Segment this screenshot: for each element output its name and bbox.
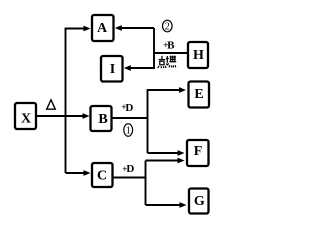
box X (15, 103, 36, 129)
arrowhead into C (84, 170, 91, 176)
label circle of circled 2 (163, 20, 173, 32)
wire into A right (119, 27, 154, 29)
wire into G (146, 204, 182, 206)
arrowhead into G (180, 202, 187, 208)
arrowhead into F lower (178, 158, 185, 164)
svg-text:E: E (194, 87, 203, 102)
arrowhead into E (179, 87, 186, 93)
wire main left vertical (65, 29, 67, 174)
box I (101, 56, 123, 82)
wire into A left (65, 28, 85, 30)
label ignite char ran (166, 56, 176, 68)
wire C branch vertical (145, 161, 147, 205)
wire X to B (36, 115, 84, 117)
arrowhead into A right (115, 25, 122, 31)
label ignite char dian (158, 56, 166, 68)
wire B output (112, 117, 149, 119)
box H (188, 42, 208, 68)
wire B branch vertical (147, 89, 149, 153)
wire right-top vertical (153, 28, 155, 68)
label delta triangle (47, 100, 56, 109)
arrowhead into B (83, 113, 90, 119)
svg-text:I: I (110, 62, 115, 77)
box G (189, 189, 209, 214)
box C (92, 163, 113, 187)
svg-text:D: D (126, 163, 134, 175)
arrowhead into F upper (178, 150, 185, 156)
wire H to vertical (154, 52, 188, 54)
svg-text:1: 1 (126, 126, 131, 137)
svg-text:B: B (167, 39, 175, 51)
box E (189, 82, 210, 108)
svg-text:X: X (21, 111, 31, 126)
wire into F lower (146, 160, 180, 162)
wire C output (113, 177, 147, 179)
svg-text:F: F (194, 144, 203, 159)
svg-text:C: C (97, 169, 107, 184)
svg-text:B: B (98, 112, 107, 127)
arrowhead into A left (84, 26, 91, 32)
wire into F upper (148, 152, 180, 154)
wire into I (128, 67, 155, 69)
wire into E (148, 89, 181, 91)
wire into C (66, 172, 86, 174)
svg-text:H: H (193, 48, 204, 63)
svg-text:D: D (125, 102, 133, 114)
label circle of circled 1 (124, 124, 133, 137)
box A (92, 15, 114, 41)
arrowhead into I (124, 65, 131, 71)
svg-text:G: G (194, 194, 205, 209)
svg-text:A: A (97, 21, 108, 36)
box F (187, 140, 209, 166)
box B (91, 106, 112, 131)
